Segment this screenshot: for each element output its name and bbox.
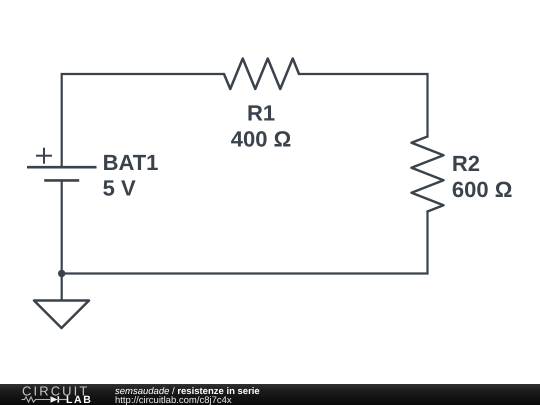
value 400 Ω — [231, 127, 291, 152]
svg-text:5 V: 5 V — [103, 176, 136, 201]
value 600 Ω — [452, 177, 512, 202]
svg-text:BAT1: BAT1 — [103, 150, 159, 175]
resistor R1 — [224, 59, 299, 90]
wire from battery + terminal up and right to R1 left terminal — [62, 74, 224, 167]
svg-text:R1: R1 — [247, 101, 275, 126]
wire from R1 right terminal to top-right corner down to R2 top — [299, 74, 428, 137]
svg-text:http://circuitlab.com/c8j7c4x: http://circuitlab.com/c8j7c4x — [115, 395, 232, 405]
junction node dot — [58, 270, 65, 277]
logo wire with resistor zigzag — [22, 397, 51, 402]
wire from battery - terminal down to ground — [61, 180, 63, 300]
footer title: semsaudade / resistenze in serie — [115, 386, 260, 397]
label R1 — [247, 101, 275, 126]
battery BAT1 negative plate — [44, 179, 79, 182]
svg-text:R2: R2 — [452, 151, 480, 176]
label R2 — [452, 151, 480, 176]
resistor R2 — [412, 137, 444, 212]
CircuitLab logo CIRCUIT text — [22, 384, 89, 399]
svg-text:LAB: LAB — [66, 394, 92, 405]
label BAT1 — [103, 150, 159, 175]
footer bar — [0, 384, 540, 405]
battery BAT1 positive plate — [27, 166, 97, 169]
logo diode symbol — [51, 396, 67, 402]
value 5 V — [103, 176, 136, 201]
battery BAT1 plus sign — [36, 148, 52, 164]
ground symbol — [34, 301, 89, 329]
logo LAB text — [66, 394, 92, 405]
svg-text:600 Ω: 600 Ω — [452, 177, 512, 202]
svg-text:400 Ω: 400 Ω — [231, 127, 291, 152]
footer url — [115, 395, 232, 405]
wire from R2 bottom to bottom-right corner left to junction — [62, 212, 428, 274]
